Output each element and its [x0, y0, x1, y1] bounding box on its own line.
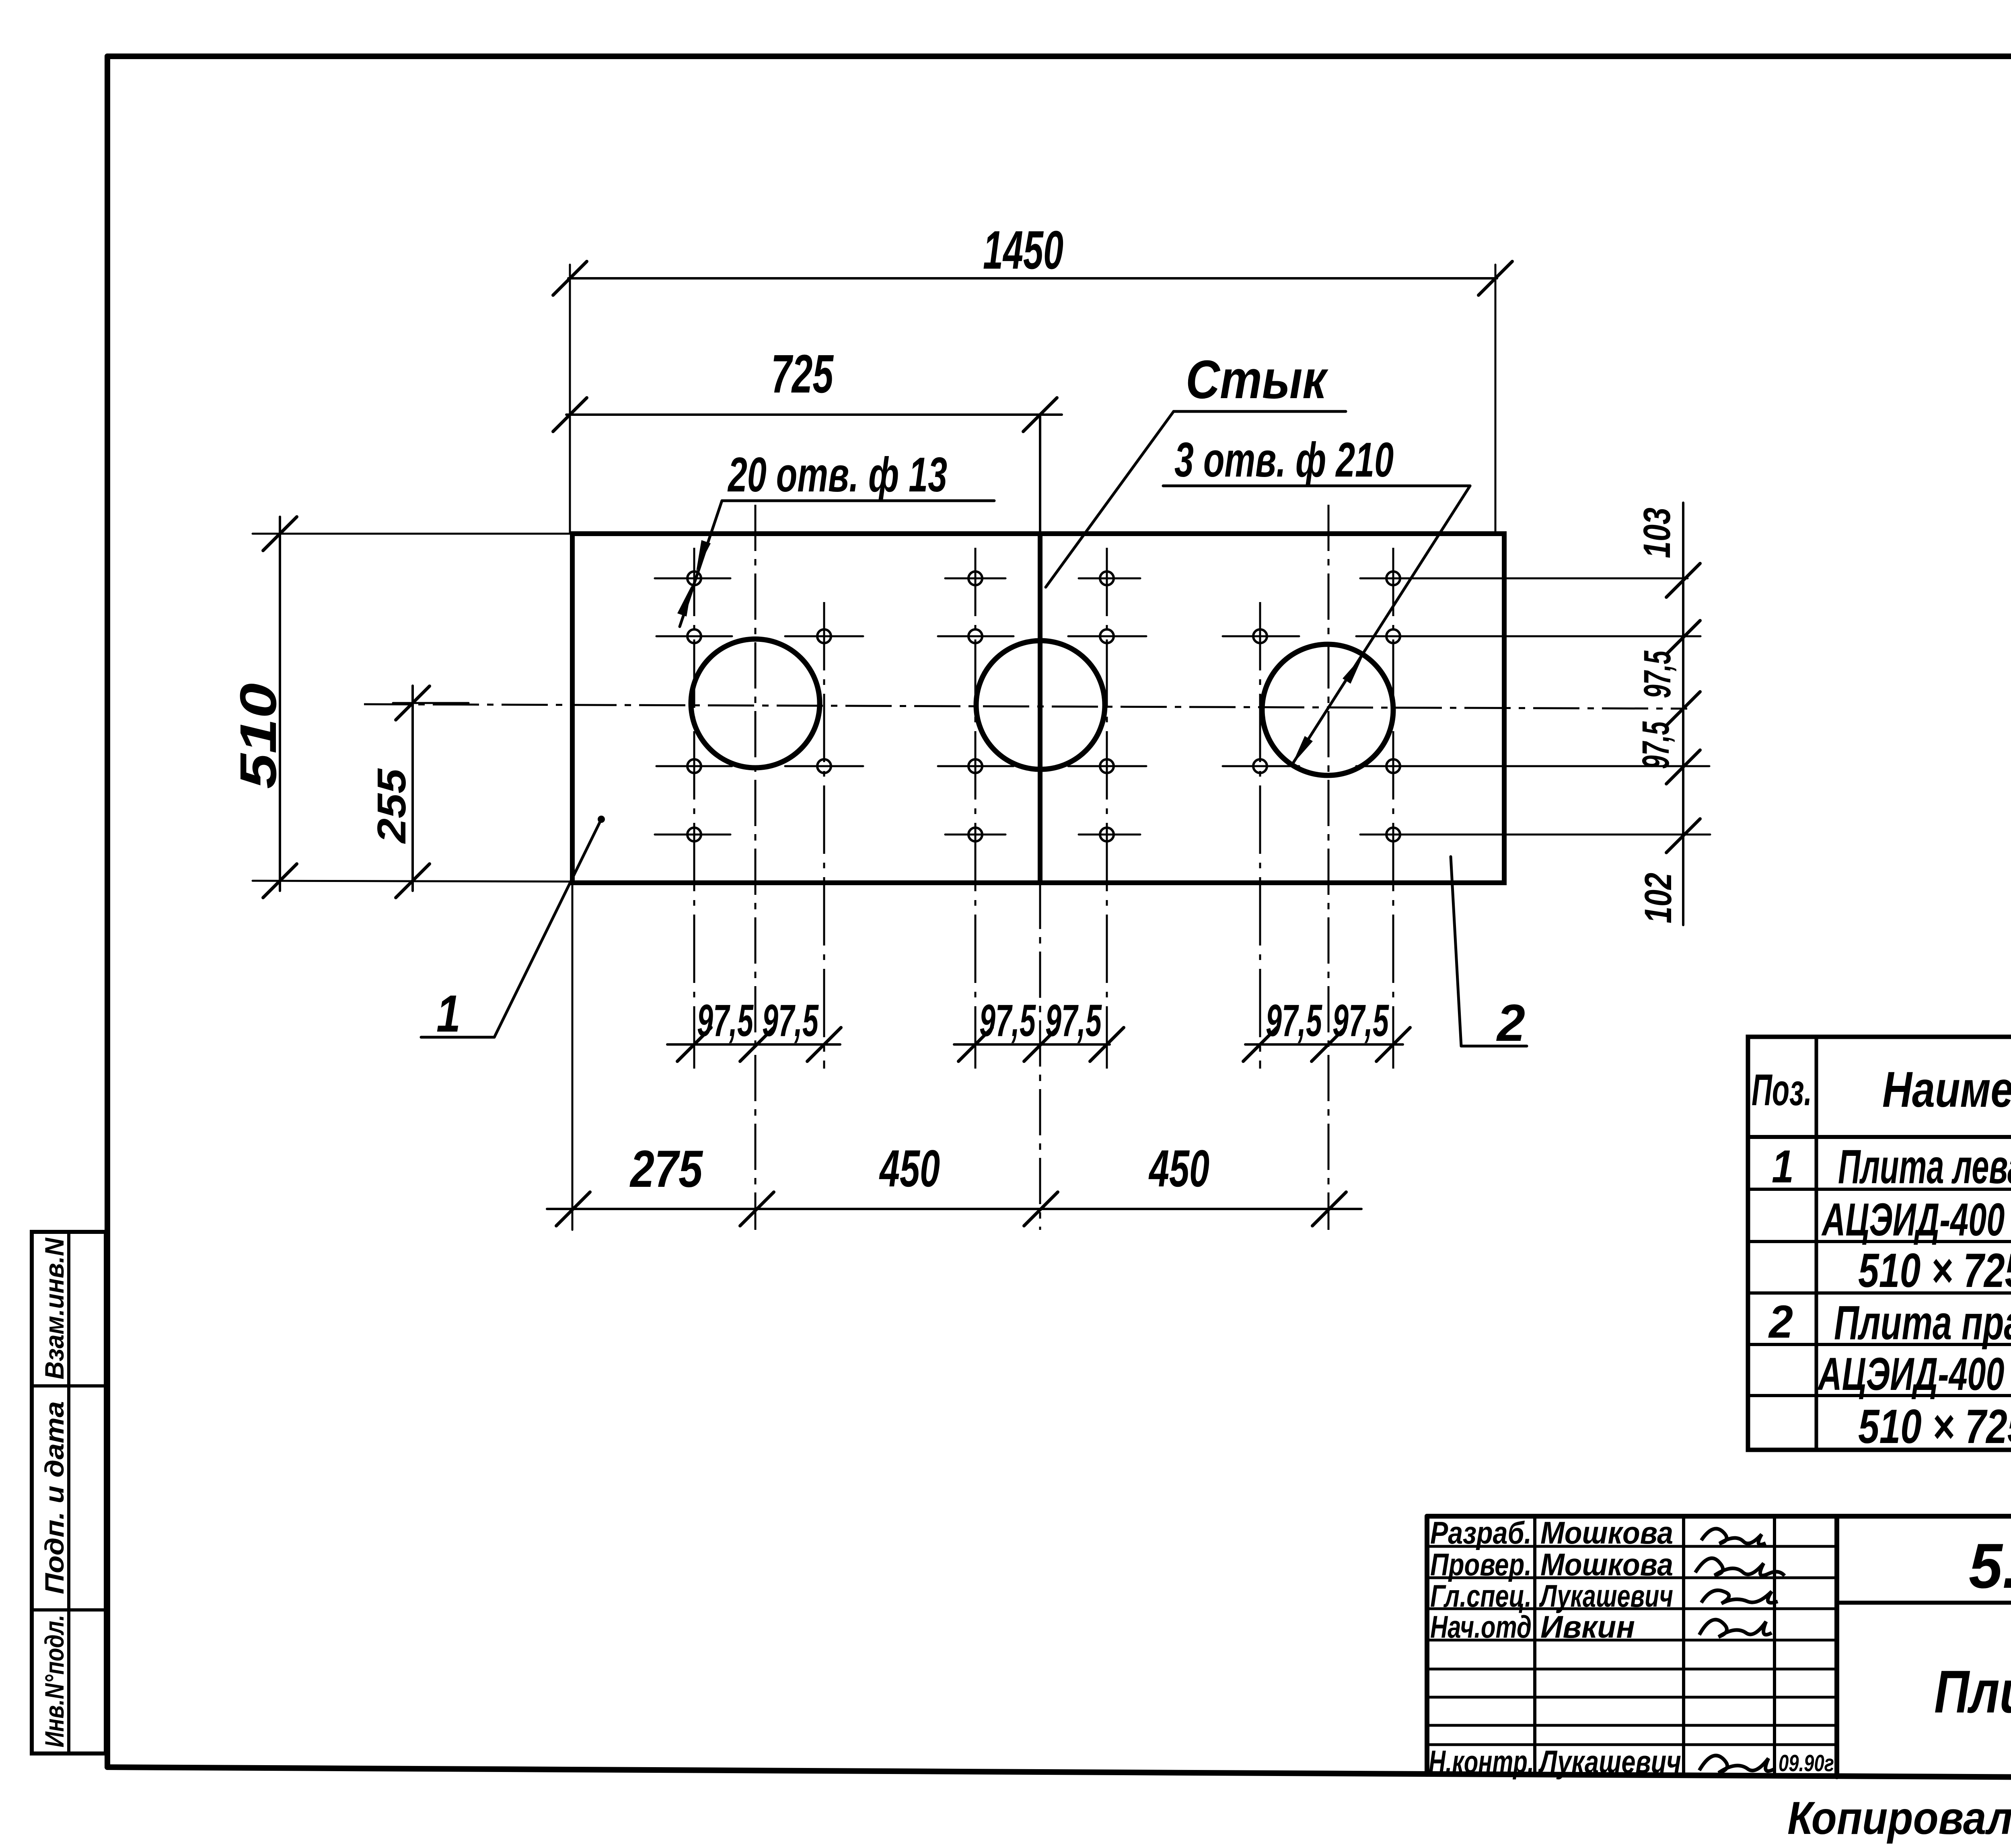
- svg-text:5.407-126.1-33: 5.407-126.1-33: [1969, 1531, 2011, 1601]
- svg-text:Копировал: Копировал: [1787, 1792, 2011, 1844]
- large hole circle 2 (ф210, on joint): [976, 641, 1105, 769]
- svg-text:Нач.отд: Нач.отд: [1430, 1609, 1532, 1644]
- svg-text:Плита правая: Плита правая: [1834, 1296, 2011, 1350]
- signature squiggle 1: [1701, 1529, 1766, 1544]
- svg-text:Провер.: Провер.: [1430, 1547, 1532, 1582]
- svg-text:АЦЭИД-400 ГОСТ4248-78: АЦЭИД-400 ГОСТ4248-78: [1821, 1194, 2011, 1246]
- svg-text:Взам.инв.N: Взам.инв.N: [39, 1237, 69, 1379]
- svg-text:97,5: 97,5: [1636, 650, 1679, 698]
- position balloon 1 leader: [494, 819, 601, 1037]
- underline Стык: [1174, 410, 1346, 413]
- svg-text:450: 450: [1148, 1139, 1209, 1198]
- vertical centerline circle 2 / joint extension above: [1039, 416, 1041, 534]
- position balloon 2 underline: [1461, 1045, 1527, 1048]
- svg-text:09.90г: 09.90г: [1779, 1750, 1834, 1776]
- 20 small holes ф13: [687, 571, 701, 585]
- bottom dimension chain 275 450 450: [547, 883, 1361, 1230]
- svg-text:97,5: 97,5: [1045, 995, 1102, 1046]
- svg-text:255: 255: [369, 768, 414, 844]
- svg-text:Стык: Стык: [1186, 349, 1328, 410]
- signature squiggle 3: [1701, 1590, 1778, 1603]
- vertical centerline circle 1: [755, 505, 757, 1230]
- svg-text:Мошкова: Мошкова: [1540, 1547, 1673, 1582]
- svg-text:Мошкова: Мошкова: [1540, 1515, 1673, 1550]
- hole row C centerline segments: [656, 765, 732, 767]
- dimension 725: [553, 398, 1062, 432]
- svg-text:3 отв. ф 210: 3 отв. ф 210: [1174, 432, 1394, 487]
- svg-text:Плита П8: Плита П8: [1934, 1658, 2011, 1725]
- dimension 1450 (top): [553, 261, 1512, 534]
- right dimension chain 103 / 97,5 / 97,5 / 102: [1666, 503, 1700, 925]
- joint line (Стык) between left and right plate: [1038, 534, 1043, 883]
- svg-text:1: 1: [1772, 1141, 1794, 1192]
- left margin stamp boxes: [32, 1232, 106, 1753]
- signature squiggle 5: [1699, 1755, 1774, 1773]
- svg-text:275: 275: [629, 1139, 703, 1198]
- svg-text:2: 2: [1496, 993, 1525, 1052]
- bottom dimension chain 97,5 x6: [667, 1028, 1410, 1061]
- large hole circle 3 (ф210): [1262, 644, 1393, 775]
- horizontal centerline through large holes: [364, 704, 1687, 709]
- leader line to ф13 hole: [680, 501, 722, 627]
- svg-text:97,5: 97,5: [1635, 721, 1677, 769]
- svg-text:Поз.: Поз.: [1752, 1065, 1812, 1115]
- svg-text:АЦЭИД-400 ГОСТ4248-78: АЦЭИД-400 ГОСТ4248-78: [1817, 1348, 2011, 1400]
- svg-text:20 отв. ф 13: 20 отв. ф 13: [728, 447, 947, 502]
- svg-text:1450: 1450: [983, 220, 1063, 280]
- svg-text:Наименование: Наименование: [1882, 1062, 2011, 1118]
- svg-text:97,5: 97,5: [762, 995, 819, 1046]
- svg-text:97,5: 97,5: [979, 995, 1036, 1046]
- position balloon 2 leader: [1451, 857, 1461, 1046]
- diameter leader through circle 3: [1292, 486, 1470, 765]
- svg-text:Подп. и дата: Подп. и дата: [39, 1401, 69, 1594]
- position balloon 1 underline: [421, 1036, 494, 1039]
- svg-text:2: 2: [1768, 1296, 1793, 1348]
- svg-text:725: 725: [771, 343, 834, 404]
- large hole circle 1 (ф210): [691, 639, 820, 768]
- svg-text:103: 103: [1636, 508, 1678, 558]
- svg-text:97,5: 97,5: [1266, 995, 1322, 1046]
- plate outline (two plates assembled): [572, 534, 1504, 883]
- svg-text:510 × 725 ×20: 510 × 725 ×20: [1858, 1244, 2011, 1297]
- svg-text:97,5: 97,5: [697, 995, 754, 1046]
- leader Стык to joint: [1046, 411, 1174, 587]
- svg-text:Ивкин: Ивкин: [1540, 1609, 1635, 1644]
- svg-text:Разраб.: Разраб.: [1430, 1515, 1532, 1550]
- specification table grid: [1748, 1037, 2011, 1450]
- hline under document code: [1837, 1601, 2011, 1605]
- hole row B centerline segments: [656, 635, 732, 637]
- svg-text:Лукашевич: Лукашевич: [1538, 1744, 1681, 1780]
- hole row A centerline segments: [655, 578, 730, 580]
- callout underline 20 отв ф13: [722, 500, 994, 502]
- svg-text:Лукашевич: Лукашевич: [1539, 1578, 1673, 1614]
- vertical centerline circle 2 / joint extension below: [1039, 883, 1041, 1230]
- title block signature grid: [1427, 1516, 1837, 1777]
- small hole column centerlines: [693, 548, 695, 1069]
- svg-text:97,5: 97,5: [1332, 995, 1389, 1046]
- hole row D centerline segments: [655, 834, 730, 836]
- svg-text:450: 450: [879, 1139, 940, 1198]
- dimension 510 (left): [253, 517, 572, 898]
- svg-text:Плита левая: Плита левая: [1838, 1140, 2011, 1194]
- svg-text:Н.контр.: Н.контр.: [1429, 1744, 1534, 1780]
- svg-text:Инв.N°подл.: Инв.N°подл.: [39, 1615, 69, 1747]
- signature squiggle 4: [1699, 1620, 1772, 1637]
- svg-text:1: 1: [436, 984, 461, 1043]
- title block outline: [1427, 1516, 2011, 1774]
- vertical centerline circle 3: [1328, 505, 1330, 1230]
- signature squiggle 2: [1695, 1558, 1785, 1576]
- svg-text:Гл.спец.: Гл.спец.: [1430, 1578, 1532, 1614]
- dimension 255 (left): [393, 686, 469, 898]
- svg-text:102: 102: [1637, 873, 1680, 923]
- svg-text:510 × 725 ×20: 510 × 725 ×20: [1858, 1400, 2011, 1453]
- svg-text:510: 510: [230, 683, 287, 789]
- callout underline 3 отв ф210: [1163, 485, 1470, 487]
